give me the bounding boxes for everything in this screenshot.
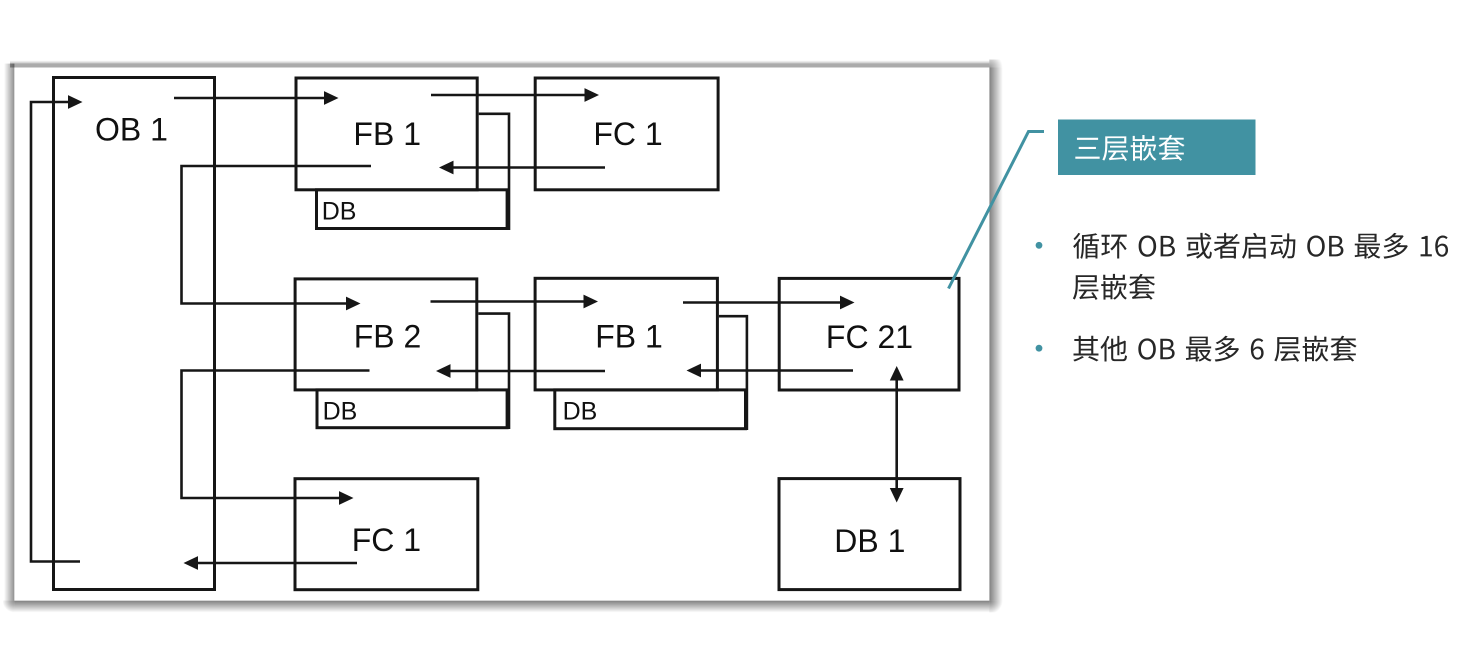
arrowhead call into FB 2 [346,297,361,311]
bullet 1 text line 2: 层嵌套 [1073,274,1155,300]
svg-text:DB 1: DB 1 [834,523,905,559]
block DB instance of FB 1 (row 2) [555,390,746,429]
svg-text:FC 1: FC 1 [352,522,421,558]
arrowhead cycle start into OB 1 [68,95,83,109]
callout title text 三层嵌套 [1075,135,1184,161]
arrowhead call into FC 1 [585,88,600,102]
panel shadow corner bottom-left [3,601,14,613]
wire DB link of FB 1 (row 2) [719,316,747,430]
svg-text:FC 1: FC 1 [593,116,662,152]
block DB instance of FB 2 [317,390,507,428]
panel shadow left [4,64,14,601]
panel shadow corner top-right [989,60,1003,68]
wire access FC 21 to DB 1 [895,379,898,489]
wire DB link of FB 2 [478,314,509,429]
block DB instance of FB 1 [317,190,508,229]
arrowhead access down into DB 1 [890,488,904,503]
panel shadow right [989,68,1003,601]
arrowhead call into FC 1 (bottom) [339,491,354,505]
block DB 1 [779,479,960,590]
arrowhead call into FB 1 (row 2) [584,295,599,309]
arrowhead return into FB 2 [436,364,451,378]
wire return FC 1 (bottom) to OB 1 [197,562,357,565]
wire return FC 21 to FB 1 (row 2) [700,369,853,372]
block FC 1 (bottom) [295,479,478,590]
bullet dot 2 [1036,345,1043,352]
panel shadow bottom [14,601,989,613]
block FB 2 [295,279,477,390]
arrowhead access up into FC 21 [890,366,904,381]
wire return FB 2 then call FC 1 (bottom) [182,371,370,499]
arrowhead return into FB 1 (row 2) [687,364,702,378]
wire return FB 1 (row 2) to FB 2 [450,370,605,373]
panel background [14,68,989,601]
callout title box [1058,120,1256,176]
block FC 1 (row 1) [535,78,718,190]
wire cycle loop into OB 1 [31,102,80,562]
wire call FB 1 (row 2) to FC 21 [683,301,841,304]
svg-text:FC 21: FC 21 [826,319,913,355]
arrowhead return into OB 1 [184,556,199,570]
block OB 1 [54,78,215,590]
svg-text:DB: DB [563,398,598,426]
svg-text:OB 1: OB 1 [95,111,168,147]
wire call OB 1 to FB 1 [174,97,325,100]
wire return FB 1 then call FB 2 [182,166,372,304]
block FC 21 [779,278,959,390]
svg-text:DB: DB [323,398,358,426]
wire DB link of FB 1 [479,114,509,230]
bullet dot 1 [1036,242,1043,249]
svg-text:FB 1: FB 1 [353,116,421,152]
wire return FC 1 to FB 1 [453,166,605,169]
svg-text:DB: DB [322,198,357,226]
bullet 1 text line 1: 循环 OB 或者启动 OB 最多 16 [1073,233,1448,259]
panel shadow corner bottom-right [989,601,1003,613]
wire call FB 2 to FB 1 (row 2) [431,300,585,303]
wire call FB 1 to FC 1 [431,94,585,97]
svg-text:FB 1: FB 1 [595,318,663,354]
callout connector line [949,132,1045,289]
arrowhead call into FB 1 [324,91,339,105]
bullet 2 text: 其他 OB 最多 6 层嵌套 [1073,336,1356,362]
panel shadow top [10,61,989,68]
arrowhead call into FC 21 [840,296,855,310]
block FB 1 (row 1) [296,78,477,190]
svg-text:FB 2: FB 2 [354,318,422,354]
arrowhead return into FB 1 [439,161,454,175]
block FB 1 (row 2) [535,278,717,390]
